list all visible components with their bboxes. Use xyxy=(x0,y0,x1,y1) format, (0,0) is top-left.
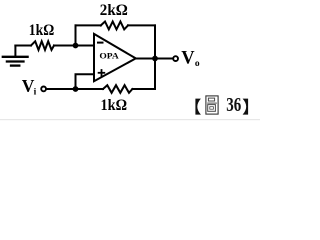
op-amp U1 triangle xyxy=(94,34,136,81)
wire feedback vertical xyxy=(75,25,77,45)
figure caption bracket left xyxy=(195,99,201,115)
svg-text:2kΩ: 2kΩ xyxy=(100,2,128,19)
svg-text:OPA: OPA xyxy=(99,51,119,61)
wire bottom resistor to right rail xyxy=(132,88,155,90)
op-amp output wire xyxy=(136,58,173,60)
node junction inverting input / feedback xyxy=(73,43,79,49)
wire right rail xyxy=(154,25,156,89)
figure caption bracket right xyxy=(243,99,249,115)
label Vo xyxy=(181,49,200,69)
svg-text:V: V xyxy=(181,49,195,69)
svg-text:o: o xyxy=(195,59,200,69)
resistor 1k ohm (left, inverting input) xyxy=(31,41,54,50)
wire Vi to bottom resistor xyxy=(47,88,103,90)
wire left resistor to inverting input xyxy=(54,45,94,47)
terminal Vo xyxy=(173,56,178,61)
node output junction xyxy=(152,56,158,62)
resistor 1k ohm (bottom) xyxy=(103,85,132,93)
svg-text:36: 36 xyxy=(226,94,241,116)
wire top rail left xyxy=(76,24,101,26)
op-amp plus input marker xyxy=(98,69,106,76)
ground xyxy=(3,46,28,66)
wire ground to left resistor xyxy=(15,45,31,47)
terminal Vi xyxy=(41,87,46,92)
svg-text:1kΩ: 1kΩ xyxy=(101,97,128,114)
svg-text:1kΩ: 1kΩ xyxy=(29,22,55,39)
node junction non-inverting input xyxy=(73,86,79,92)
label Vi xyxy=(22,76,37,97)
resistor 2k ohm (feedback) xyxy=(101,22,128,30)
svg-text:i: i xyxy=(34,88,37,98)
op-amp minus input marker xyxy=(97,42,104,44)
wire to non-inverting input xyxy=(76,74,95,89)
faint page rule at bottom xyxy=(0,119,260,120)
figure caption character tu (figure) xyxy=(206,96,218,114)
wire top rail right xyxy=(128,24,155,26)
